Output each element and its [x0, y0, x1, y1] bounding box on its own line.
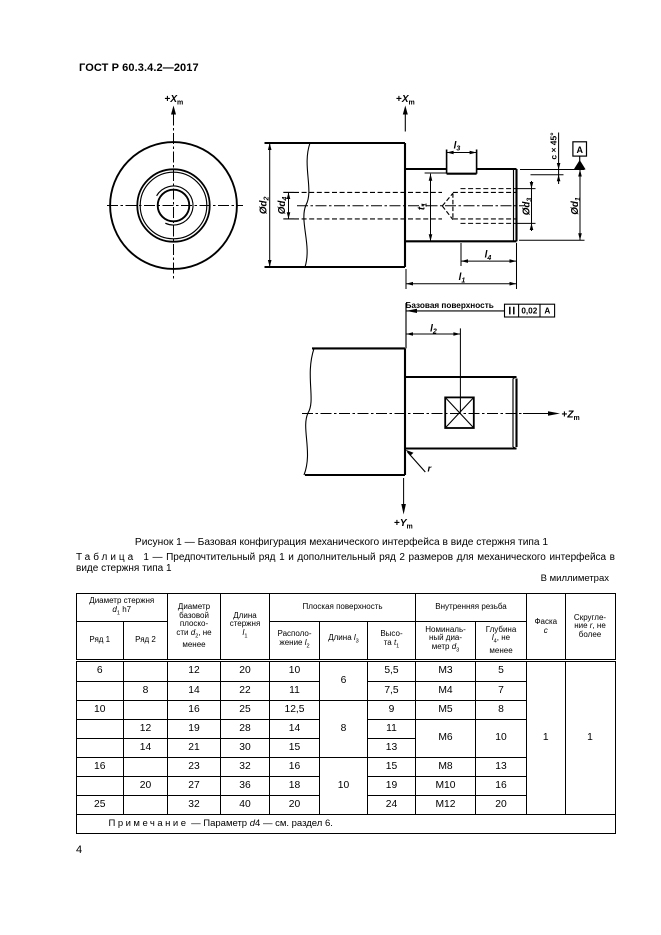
svg-text:l1: l1: [459, 272, 466, 284]
l1 label: [459, 272, 466, 284]
Od4 dimension: [288, 192, 290, 219]
thread bore hidden lines: [453, 192, 517, 219]
svg-text:Ød4: Ød4: [277, 197, 289, 215]
figure caption: [72, 537, 611, 548]
parallelism symbol: [510, 307, 514, 315]
t1 label: [417, 203, 429, 210]
svg-text:l4: l4: [485, 250, 492, 262]
Od4 label: [277, 197, 289, 215]
datum letter A in frame: [544, 307, 550, 316]
flat notch side edges + l3 extension lines: [447, 150, 477, 174]
shaft outline with flat notch (side view): [405, 169, 517, 241]
flat notch floor (side view): [447, 173, 477, 175]
svg-text:+Ym: +Ym: [394, 518, 413, 531]
svg-text:Ød1: Ød1: [570, 197, 582, 215]
Od1 label: [570, 197, 582, 215]
+Xm axis arrow (front view): [171, 106, 176, 115]
svg-text:0,02: 0,02: [521, 307, 537, 316]
outer circle d2 (front view): [110, 142, 237, 269]
svg-text:+Zm: +Zm: [562, 409, 580, 422]
+Ym axis (bottom view): [403, 478, 405, 506]
data table: [76, 593, 616, 834]
flat surface square with cross (bottom view): [445, 397, 474, 428]
l3 label: [454, 141, 461, 153]
l4 dimension: [461, 243, 517, 289]
+Zm label: [562, 409, 580, 422]
chamfer dimension c x 45: [531, 133, 564, 185]
Od3 dimension: [517, 181, 536, 231]
svg-text:l2: l2: [430, 324, 437, 336]
shaft end chamfer (bottom view): [513, 377, 517, 449]
chamfer circle (front view): [140, 172, 207, 239]
svg-text:A: A: [544, 307, 550, 316]
+Xm label (front view): [165, 94, 184, 107]
side view horizontal centerline: [297, 205, 524, 207]
l3 dimension: [447, 152, 477, 154]
l2 dimension: [406, 328, 460, 412]
svg-text:+Xm: +Xm: [165, 94, 184, 107]
shaft outline (bottom view): [405, 377, 517, 449]
l1 dimension: [406, 269, 517, 289]
svg-text:t1: t1: [417, 203, 429, 210]
l2 label: [430, 324, 437, 336]
thread crest 3/4 arc (front view): [157, 186, 193, 225]
page number: [76, 844, 82, 856]
front view horizontal centerline: [107, 205, 243, 207]
flange break wavy line (side view): [304, 143, 310, 267]
Od1 dimension: [519, 170, 585, 241]
flange outline (bottom view): [305, 348, 405, 475]
d4 hole hidden lines: [283, 192, 442, 219]
r label: [428, 464, 433, 475]
Od3 label: [522, 198, 534, 216]
shaft end chamfer line (side view): [513, 170, 515, 242]
+Xm axis arrow (side view): [404, 115, 406, 132]
page header: [79, 62, 199, 74]
+Ym label: [394, 518, 413, 531]
svg-text:l3: l3: [454, 141, 461, 153]
shaft circle d1 (front view): [137, 169, 209, 241]
tolerance value 0,02: [521, 307, 537, 316]
fillet r leader: [408, 452, 426, 472]
threaded hole circle (front view): [158, 190, 190, 222]
Od2 dimension: [269, 143, 271, 267]
l4 label: [485, 250, 492, 262]
parallelism tolerance frame: [505, 304, 555, 317]
svg-text:c × 45°: c × 45°: [549, 132, 559, 160]
t1 dimension: [425, 173, 447, 241]
flange body outline (side view): [265, 143, 406, 267]
svg-text:Ød3: Ød3: [522, 198, 534, 216]
+Xm label (side view): [396, 94, 415, 107]
svg-text:+Xm: +Xm: [396, 94, 415, 107]
svg-text:Базовая поверхность: Базовая поверхность: [406, 301, 494, 310]
base surface label: [406, 301, 494, 310]
units note: [76, 573, 609, 584]
flange break wavy line (bottom view): [304, 348, 314, 475]
base surface leader line: [406, 303, 505, 348]
svg-text:A: A: [576, 145, 583, 155]
thread major diameter hidden lines: [461, 189, 517, 224]
svg-text:r: r: [428, 464, 433, 475]
svg-text:Ød2: Ød2: [259, 196, 271, 214]
+Zm centerline axis (bottom view): [302, 413, 523, 415]
datum A symbol: [573, 142, 587, 156]
thread drill cone (hidden): [442, 193, 453, 219]
table title: [76, 552, 615, 575]
front view vertical centerline: [173, 115, 175, 282]
Od2 label: [259, 196, 271, 214]
c x 45 label: [549, 132, 559, 160]
